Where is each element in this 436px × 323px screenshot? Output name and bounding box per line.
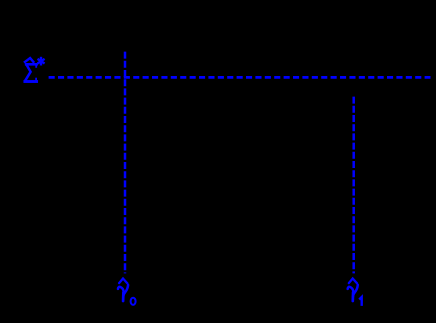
subscript 1 (359, 297, 362, 306)
gamma glyph (348, 287, 354, 292)
hat over gamma (349, 279, 357, 284)
superscript asterisk (40, 58, 42, 64)
subscript 0 (131, 298, 136, 305)
label Sigma-hat-star (axis level label) (25, 58, 44, 82)
hat over gamma (119, 279, 127, 284)
Sigma glyph (26, 63, 36, 66)
vertical dashed line at gamma-hat-1 (352, 97, 355, 274)
hat over Sigma (25, 58, 34, 62)
label gamma-hat-0 under left vertical line (118, 279, 136, 305)
gamma glyph (118, 287, 124, 292)
vertical dashed line at gamma-hat-0 (124, 52, 127, 274)
label gamma-hat-1 under right vertical line (348, 279, 362, 306)
horizontal dashed threshold line at level Sigma-hat-star (49, 76, 431, 79)
